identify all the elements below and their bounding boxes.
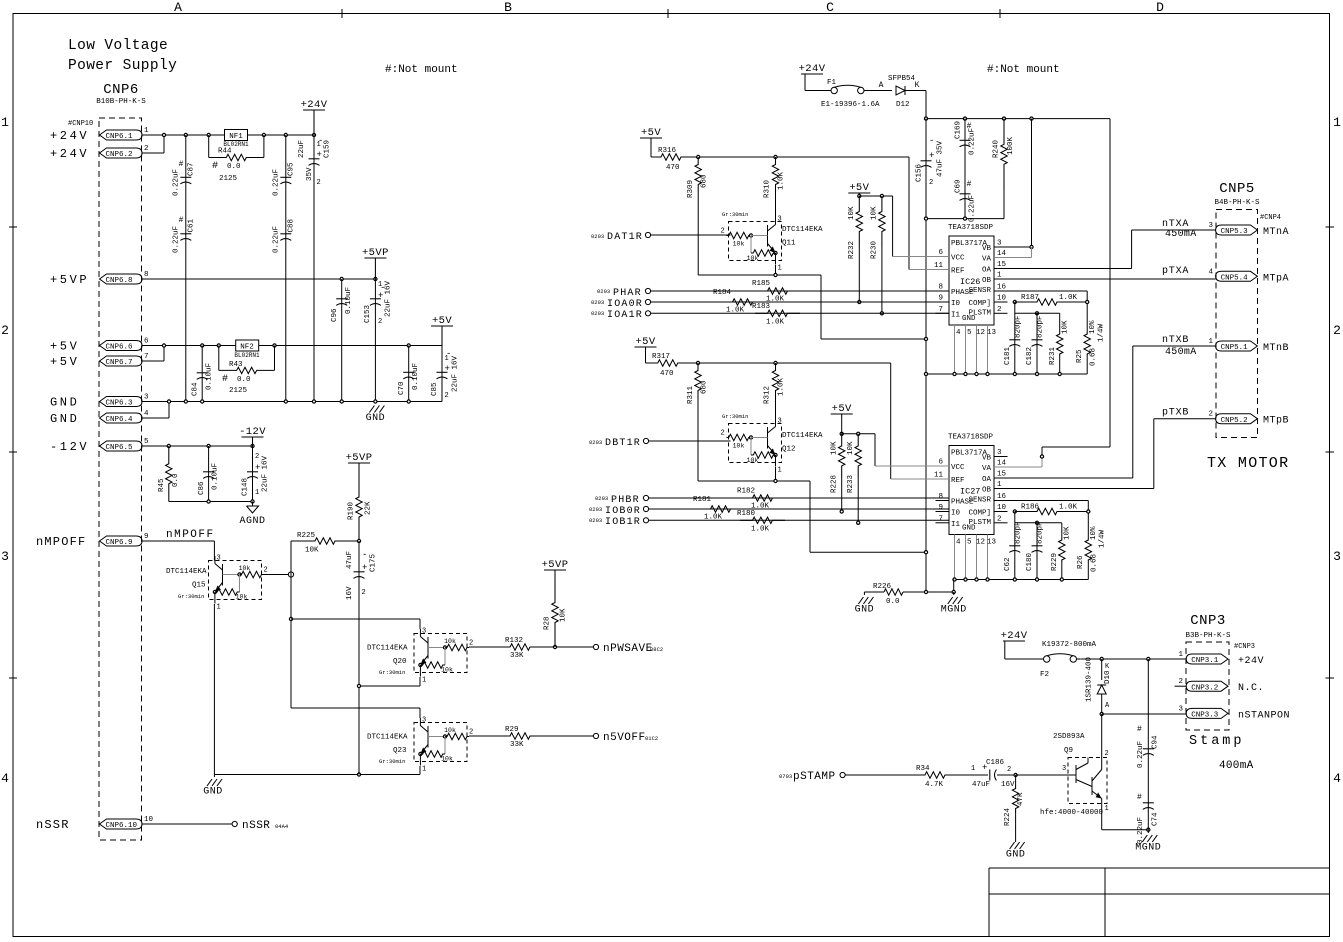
svg-text:R183: R183	[752, 303, 771, 311]
capacitor C181 820pF	[1014, 302, 1016, 374]
svg-text:11: 11	[934, 262, 944, 270]
svg-text:TEA3718SDP: TEA3718SDP	[948, 224, 994, 232]
svg-text:GND: GND	[366, 413, 386, 424]
svg-text:+5V: +5V	[50, 340, 79, 354]
svg-text:nPWSAVE: nPWSAVE	[603, 643, 653, 655]
svg-text:10K: 10K	[560, 608, 568, 622]
svg-text:nSTANPON: nSTANPON	[1238, 710, 1290, 721]
wire Q20 branch	[290, 575, 292, 709]
svg-text:D: D	[1156, 0, 1164, 15]
resistor R311 680	[695, 363, 701, 398]
svg-text:0.10uF: 0.10uF	[212, 463, 220, 490]
resistor R226 0.0	[864, 591, 884, 593]
svg-text:+24V: +24V	[799, 63, 826, 75]
svg-text:680: 680	[701, 174, 709, 188]
ground GND R224	[1015, 813, 1017, 842]
svg-text:IOB0R: IOB0R	[605, 506, 641, 517]
noise filter NF1	[225, 130, 248, 141]
wire cap group bottom rail	[926, 218, 1004, 220]
svg-text:1: 1	[422, 677, 426, 685]
svg-text:Gr:30min: Gr:30min	[379, 758, 405, 765]
resistor R25 0.68 1/4W	[1084, 332, 1090, 356]
svg-text:+: +	[362, 563, 367, 573]
resistor R184 1.0K	[651, 301, 949, 303]
wire VBB to IC27	[1109, 119, 1111, 447]
wire IC27 OB to pTXB	[994, 488, 1154, 490]
svg-text:100K: 100K	[1007, 136, 1015, 155]
wire Q23 emitter	[419, 766, 421, 775]
capacitor C87	[185, 135, 187, 402]
svg-text:#: #	[1137, 725, 1142, 734]
svg-text:2: 2	[378, 318, 382, 326]
capacitor C61	[180, 233, 191, 235]
capacitor C159 electrolytic	[313, 135, 315, 402]
svg-text:3: 3	[778, 418, 782, 426]
svg-text:K19372-800mA: K19372-800mA	[1042, 641, 1097, 649]
transistor Q23 DTC114EKA	[414, 723, 467, 762]
svg-text:2: 2	[1333, 323, 1341, 338]
svg-text:10K: 10K	[871, 206, 879, 220]
capacitor C169	[964, 119, 966, 219]
svg-text:CNP6.7: CNP6.7	[106, 359, 133, 367]
svg-text:820pF: 820pF	[1015, 521, 1023, 544]
svg-text:GND: GND	[50, 396, 79, 410]
connector CNP3 dashed box	[1186, 642, 1229, 730]
capacitor C69	[960, 193, 971, 195]
svg-text:CNP3.1: CNP3.1	[1191, 657, 1219, 665]
svg-text:11: 11	[934, 472, 944, 480]
ground MGND main	[953, 592, 955, 595]
svg-text:C180: C180	[1026, 552, 1034, 571]
svg-text:#:Not mount: #:Not mount	[987, 64, 1060, 76]
svg-text:COMP]: COMP]	[968, 510, 991, 518]
svg-text:C84: C84	[192, 382, 200, 396]
svg-text:6: 6	[938, 459, 943, 467]
svg-text:10k: 10k	[733, 443, 745, 450]
svg-text:MTpA: MTpA	[1263, 273, 1289, 284]
svg-text:CNP3.3: CNP3.3	[1191, 712, 1219, 720]
svg-text:NF1: NF1	[229, 133, 243, 141]
svg-text:R132: R132	[505, 637, 523, 645]
resistor R26 0.68 1/4W	[1085, 538, 1091, 562]
svg-text:GND: GND	[962, 315, 976, 323]
svg-text:2125: 2125	[219, 175, 238, 183]
resistor R186 1.0K	[1013, 510, 1016, 513]
svg-text:#: #	[179, 160, 184, 169]
connector pin CNP3.1	[1186, 654, 1228, 664]
svg-text:+24V: +24V	[50, 147, 89, 161]
wire Q11 to MGND node	[821, 338, 926, 340]
svg-text:+5VP: +5VP	[542, 559, 569, 571]
svg-text:PHBR: PHBR	[611, 495, 640, 506]
svg-text:10k: 10k	[441, 756, 453, 763]
svg-text:C96: C96	[331, 308, 339, 322]
svg-text:#:Not mount: #:Not mount	[385, 64, 458, 76]
resistor R230 10K	[879, 196, 885, 247]
svg-text:470: 470	[660, 370, 674, 378]
svg-text:-: -	[362, 550, 367, 560]
svg-text:33K: 33K	[510, 652, 524, 660]
svg-text:10k: 10k	[444, 727, 456, 734]
resistor R45	[166, 446, 172, 502]
wire R312 to Q12 collector	[775, 398, 777, 419]
svg-text:MTpB: MTpB	[1263, 416, 1289, 427]
svg-text:10k: 10k	[747, 457, 759, 464]
connector pin CNP6.3	[100, 397, 143, 407]
svg-text:0.10uF: 0.10uF	[345, 287, 353, 314]
ground MGND stamp	[1147, 830, 1149, 833]
fuse F1	[827, 90, 831, 92]
svg-text:2: 2	[1178, 678, 1183, 686]
svg-text:3: 3	[1333, 549, 1341, 564]
svg-text:0.0: 0.0	[886, 598, 900, 606]
svg-text:#: #	[967, 180, 972, 189]
wire CNP6.7 riser	[142, 360, 164, 362]
wire +24V rail	[142, 134, 314, 136]
svg-text:2: 2	[721, 228, 725, 236]
svg-text:C87: C87	[188, 162, 196, 176]
svg-text:+: +	[929, 151, 934, 161]
svg-text:10: 10	[144, 816, 154, 824]
svg-text:1: 1	[217, 604, 221, 612]
svg-text:K: K	[915, 81, 920, 90]
wire IC26 OB to pTXA	[994, 278, 1216, 280]
wire -12V rail	[142, 445, 253, 447]
transistor Q15 DTC114EKA	[209, 561, 262, 600]
svg-text:+24V: +24V	[301, 99, 328, 111]
svg-text:nSSR: nSSR	[242, 820, 270, 832]
wire CNP3.2 stub	[1175, 685, 1187, 687]
svg-text:22uF 16V: 22uF 16V	[452, 355, 460, 392]
svg-text:nMPOFF: nMPOFF	[166, 529, 215, 541]
svg-text:GND: GND	[855, 605, 875, 616]
svg-text:CNP6.4: CNP6.4	[106, 416, 134, 424]
svg-text:Low Voltage: Low Voltage	[68, 38, 168, 54]
svg-text:+5V: +5V	[50, 355, 79, 369]
svg-text:2: 2	[469, 729, 473, 737]
svg-text:-: -	[929, 136, 934, 146]
svg-text:CNP5.2: CNP5.2	[1221, 417, 1248, 425]
svg-text:6: 6	[144, 338, 149, 346]
svg-text:10K: 10K	[830, 441, 838, 455]
svg-text:DTC114EKA: DTC114EKA	[367, 734, 408, 742]
svg-text:08C2: 08C2	[650, 646, 663, 653]
wire GND rail	[142, 401, 442, 403]
svg-text:1/4W: 1/4W	[1098, 529, 1106, 548]
svg-text:0.0: 0.0	[172, 473, 180, 487]
svg-text:4: 4	[144, 410, 149, 418]
svg-text:CNP6.6: CNP6.6	[106, 344, 134, 352]
svg-text:2: 2	[255, 453, 259, 461]
wire diode to node	[905, 90, 926, 92]
svg-text:1: 1	[255, 489, 259, 497]
svg-text:I1: I1	[951, 311, 961, 319]
svg-text:2125: 2125	[229, 387, 248, 395]
svg-text:5: 5	[967, 539, 972, 547]
svg-text:16: 16	[997, 284, 1007, 292]
svg-text:R25: R25	[1076, 349, 1084, 363]
svg-text:0.10uF: 0.10uF	[412, 363, 420, 390]
svg-text:8: 8	[938, 284, 943, 292]
svg-text:R190: R190	[348, 501, 356, 520]
svg-text:I1: I1	[951, 521, 961, 529]
resistor R312 1.0K	[772, 363, 778, 398]
svg-text:10K: 10K	[847, 441, 855, 455]
svg-text:C175: C175	[370, 553, 378, 572]
svg-text:pTXB: pTXB	[1162, 408, 1189, 419]
svg-text:R180: R180	[737, 510, 756, 518]
resistor R309 680	[695, 157, 701, 192]
svg-text:IOB1R: IOB1R	[605, 517, 641, 528]
svg-text:0.10uF: 0.10uF	[206, 363, 214, 390]
svg-text:R28: R28	[544, 616, 552, 630]
svg-text:3: 3	[1178, 705, 1183, 713]
svg-text:Q20: Q20	[393, 658, 407, 666]
connector pin CNP3.2	[1186, 681, 1228, 691]
resistor R231 10K	[1057, 332, 1063, 356]
svg-text:1.0K: 1.0K	[751, 526, 770, 534]
terminal nPWSAVE	[593, 644, 598, 649]
svg-text:GND: GND	[50, 412, 79, 426]
svg-text:VA: VA	[982, 256, 992, 264]
connector pin CNP5.3	[1216, 225, 1258, 235]
svg-text:2: 2	[469, 640, 473, 648]
svg-text:nSSR: nSSR	[36, 818, 70, 832]
wire Q12 emitter row	[775, 467, 777, 481]
wire emitter to MGND	[1102, 829, 1149, 831]
svg-text:+: +	[317, 150, 322, 160]
svg-text:#CNP4: #CNP4	[1260, 214, 1281, 222]
svg-text:C182: C182	[1026, 347, 1034, 365]
svg-text:GND: GND	[1006, 850, 1026, 861]
svg-text:#: #	[212, 161, 218, 172]
svg-text:13: 13	[987, 329, 997, 337]
svg-text:R317: R317	[652, 353, 670, 361]
svg-text:+24V: +24V	[1238, 656, 1264, 667]
svg-text:OA: OA	[982, 476, 992, 484]
title block	[989, 867, 1330, 869]
svg-text:2: 2	[264, 567, 268, 575]
svg-text:2: 2	[1007, 766, 1011, 774]
svg-text:Gr:30min: Gr:30min	[722, 413, 748, 420]
svg-text:CNP5.1: CNP5.1	[1221, 344, 1249, 352]
wire +5V rail	[142, 345, 442, 347]
svg-text:22K: 22K	[365, 501, 373, 515]
svg-text:1: 1	[997, 481, 1002, 489]
svg-text:R181: R181	[693, 496, 712, 504]
wire IC27 VA	[994, 466, 1042, 468]
svg-text:15: 15	[997, 261, 1007, 269]
svg-text:+5V: +5V	[432, 315, 452, 327]
svg-text:2: 2	[445, 392, 449, 400]
svg-text:0.22uF: 0.22uF	[969, 128, 977, 155]
capacitor C182 820pF	[1036, 313, 1038, 374]
svg-text:10k: 10k	[236, 594, 248, 601]
svg-text:TX MOTOR: TX MOTOR	[1207, 455, 1289, 472]
svg-text:R230: R230	[871, 240, 879, 259]
svg-text:0.68: 0.68	[1091, 554, 1099, 572]
wire IC26 VB riser	[1031, 119, 1033, 247]
svg-text:R225: R225	[297, 532, 316, 540]
svg-text:4: 4	[1333, 771, 1341, 786]
svg-text:+24V: +24V	[50, 129, 89, 143]
svg-text:3: 3	[997, 449, 1002, 457]
capacitor C95	[285, 135, 287, 402]
svg-text:A: A	[174, 0, 182, 15]
svg-text:C69: C69	[955, 179, 963, 193]
svg-text:R182: R182	[737, 488, 755, 496]
wire MGND column	[953, 580, 955, 593]
svg-text:A: A	[879, 81, 884, 90]
wire nMPOFF	[142, 540, 214, 542]
svg-text:9: 9	[144, 533, 149, 541]
capacitor C85 electrolytic	[437, 371, 448, 373]
transistor Q20 DTC114EKA	[414, 634, 467, 673]
resistor R316 470	[651, 154, 691, 160]
svg-text:0.0: 0.0	[237, 376, 251, 384]
svg-text:+5VP: +5VP	[362, 247, 389, 259]
svg-text:0.0: 0.0	[227, 163, 241, 171]
resistor R228 10K	[839, 434, 845, 478]
svg-text:C61: C61	[188, 218, 196, 232]
svg-text:MGND: MGND	[941, 605, 967, 616]
svg-text:12: 12	[976, 329, 985, 337]
svg-text:R43: R43	[229, 361, 243, 369]
wire fuse to CNP3.1	[1081, 658, 1187, 660]
capacitor C88	[280, 233, 291, 235]
wire REF27 riser	[890, 363, 892, 479]
svg-text:COMP]: COMP]	[968, 300, 991, 308]
svg-text:1: 1	[144, 127, 149, 135]
svg-text:1: 1	[1208, 338, 1213, 346]
svg-text:1: 1	[1178, 651, 1183, 659]
connector pin CNP5.4	[1216, 271, 1258, 281]
svg-text:Q9: Q9	[1064, 747, 1073, 755]
svg-text:OA: OA	[982, 267, 992, 275]
svg-text:2: 2	[362, 589, 366, 597]
svg-text:1: 1	[422, 766, 426, 774]
svg-text:14: 14	[997, 250, 1007, 258]
ground AGND	[252, 502, 254, 507]
resistor R190 22K	[356, 473, 362, 541]
resistor R28 10K	[552, 578, 558, 647]
transistor Q11 DTC114EKA	[729, 222, 782, 261]
svg-text:D12: D12	[896, 101, 910, 109]
svg-text:2: 2	[1208, 411, 1213, 419]
wire IC27 ground rail	[954, 579, 1089, 581]
connector pin CNP6.10	[100, 819, 143, 829]
svg-text:0.22uF: 0.22uF	[273, 169, 281, 196]
svg-text:VCC: VCC	[951, 255, 965, 263]
ground GND symbol main	[369, 406, 374, 413]
svg-text:3: 3	[778, 216, 782, 224]
svg-text:3: 3	[217, 555, 221, 563]
svg-text:nMPOFF: nMPOFF	[36, 535, 86, 549]
svg-text:470: 470	[666, 164, 680, 172]
svg-text:1: 1	[997, 272, 1002, 280]
svg-text:15: 15	[997, 471, 1007, 479]
resistor R310 1.0K	[772, 157, 778, 192]
svg-text:12: 12	[976, 539, 985, 547]
capacitor C148 electrolytic	[252, 446, 254, 502]
resistor R187 1.0K	[1013, 300, 1016, 303]
svg-text:R310: R310	[764, 179, 772, 198]
svg-text:22uF 16V: 22uF 16V	[262, 455, 270, 492]
svg-text:#: #	[1137, 793, 1142, 802]
svg-text:I0: I0	[951, 300, 961, 308]
svg-text:REF: REF	[951, 477, 965, 485]
svg-text:1: 1	[1, 115, 9, 130]
svg-text:10k: 10k	[444, 638, 456, 645]
svg-text:IC26: IC26	[960, 277, 980, 287]
svg-text:5: 5	[144, 438, 149, 446]
svg-text:CNP3: CNP3	[1190, 613, 1226, 629]
svg-text:16V: 16V	[346, 586, 354, 600]
svg-text:Q12: Q12	[782, 446, 796, 454]
svg-text:CNP5.3: CNP5.3	[1221, 228, 1249, 236]
svg-text:2: 2	[1, 323, 9, 338]
svg-text:2: 2	[144, 145, 149, 153]
wire +5V row1 rail	[691, 156, 909, 158]
svg-text:E1-19396-1.6A: E1-19396-1.6A	[821, 101, 880, 109]
svg-text:3: 3	[1208, 222, 1213, 230]
svg-text:R45: R45	[158, 478, 166, 492]
svg-text:C86: C86	[198, 481, 206, 495]
connector pin CNP6.4	[100, 413, 143, 423]
svg-text:7: 7	[938, 515, 943, 523]
svg-text:+5VP: +5VP	[50, 273, 89, 287]
svg-text:35V: 35V	[306, 167, 314, 181]
svg-text:820pF: 820pF	[1037, 315, 1045, 338]
connector CNP5 dashed box	[1216, 210, 1258, 438]
svg-text:R226: R226	[873, 583, 892, 591]
svg-text:10k: 10k	[239, 565, 251, 572]
svg-text:0203: 0203	[589, 506, 602, 513]
svg-text:GND: GND	[203, 787, 223, 798]
svg-text:22uF: 22uF	[298, 140, 306, 158]
svg-text:0.22uF: 0.22uF	[1137, 817, 1145, 844]
svg-text:33K: 33K	[510, 741, 524, 749]
resistor R29 33K	[469, 735, 507, 737]
wire CNP6.2 riser	[142, 152, 164, 154]
svg-text:3: 3	[997, 240, 1002, 248]
svg-text:R228: R228	[830, 475, 838, 493]
wire IC27 PLSTM	[1035, 521, 1038, 524]
svg-text:REF: REF	[951, 268, 965, 276]
svg-text:AGND: AGND	[239, 516, 265, 527]
svg-text:CNP6.5: CNP6.5	[106, 444, 134, 452]
connector pin CNP6.2	[100, 148, 143, 158]
svg-text:VA: VA	[982, 465, 992, 473]
resistor R225	[290, 541, 292, 575]
svg-text:R232: R232	[848, 241, 856, 259]
resistor R240 100K	[1001, 119, 1007, 190]
svg-text:10: 10	[997, 504, 1007, 512]
svg-text:C70: C70	[398, 381, 406, 395]
svg-text:16: 16	[997, 493, 1007, 501]
svg-text:2: 2	[929, 179, 933, 187]
svg-text:R44: R44	[218, 148, 232, 156]
svg-text:13: 13	[987, 539, 997, 547]
wire GND rail bottom	[214, 774, 420, 776]
wire VCC27 riser	[874, 434, 876, 466]
wire CNP6.4 riser	[142, 417, 169, 419]
resistor R232 10K	[856, 196, 862, 247]
svg-text:450mA: 450mA	[1165, 347, 1197, 358]
svg-text:5: 5	[967, 329, 972, 337]
svg-text:2: 2	[317, 179, 321, 187]
svg-text:16V: 16V	[1001, 781, 1015, 789]
